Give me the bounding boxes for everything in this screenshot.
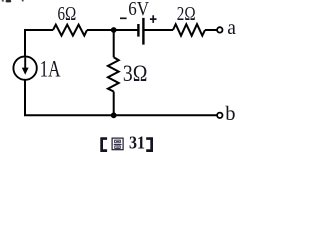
battery V1 6V positive plate (long) <box>142 18 144 45</box>
current source arrow shaft <box>24 58 26 71</box>
svg-text:3Ω: 3Ω <box>123 61 147 86</box>
wire top-left segment <box>24 29 53 31</box>
svg-text:6V: 6V <box>128 0 149 20</box>
cropped text remnant specks at top edge <box>2 0 24 2</box>
wire left vertical top (corner to current source) <box>24 30 26 56</box>
svg-text:a: a <box>227 18 236 39</box>
caption right lenticular bracket <box>146 137 153 152</box>
terminal b open circle <box>217 113 222 118</box>
caption character 圖 (figure) <box>112 138 123 150</box>
wire from 3Ω down to bottom node <box>113 92 115 116</box>
svg-text:1A: 1A <box>40 57 61 82</box>
terminal a open circle <box>217 27 222 32</box>
node junction dot bottom <box>111 112 117 118</box>
resistor 3Ω (middle vertical) <box>108 57 119 91</box>
wire bottom rail <box>24 114 217 116</box>
wire left vertical bottom (current source to corner) <box>24 80 26 115</box>
polarity plus sign <box>150 15 157 23</box>
svg-text:31: 31 <box>129 133 145 153</box>
wire from 6Ω to battery minus plate <box>87 29 138 31</box>
svg-text:b: b <box>225 103 235 125</box>
wire from 2Ω to terminal a <box>205 29 217 31</box>
resistor 6Ω (top left) <box>53 25 87 36</box>
current source I1 circle <box>13 56 36 79</box>
caption left lenticular bracket <box>100 137 107 152</box>
svg-text:2Ω: 2Ω <box>177 3 196 25</box>
wire from top node down to 3Ω <box>113 30 115 57</box>
battery V1 6V negative plate (short) <box>137 24 139 37</box>
node junction dot top (3Ω tap) <box>111 27 117 33</box>
resistor 2Ω (top right) <box>173 24 205 36</box>
svg-text:6Ω: 6Ω <box>58 3 77 25</box>
polarity minus sign <box>120 17 127 19</box>
wire from battery plus plate to 2Ω <box>145 29 174 31</box>
current source arrowhead (down) <box>22 68 29 75</box>
